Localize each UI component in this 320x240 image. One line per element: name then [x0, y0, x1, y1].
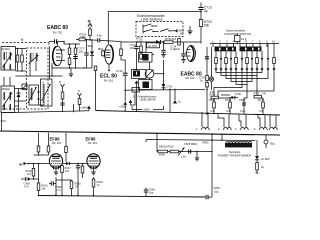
svg-text:1: 1	[212, 40, 214, 44]
svg-text:R501A R501: R501A R501	[159, 145, 174, 149]
svg-text:10n: 10n	[79, 50, 84, 54]
svg-text:4,7n: 4,7n	[24, 185, 30, 189]
svg-text:Rö 161: Rö 161	[104, 79, 113, 83]
label level meter	[138, 96, 157, 102]
svg-text:9: 9	[266, 40, 268, 44]
svg-text:R801: R801	[203, 141, 210, 145]
capacitor C719	[116, 60, 128, 102]
capacitor C721 feed line	[130, 41, 139, 71]
resistor R315	[56, 180, 81, 196]
wire ECL80 top to plate row	[108, 40, 141, 60]
tube EABC80 Roe702 envelope	[53, 46, 62, 65]
svg-text:927kHz: 927kHz	[2, 47, 11, 51]
labels R805 R801	[203, 141, 210, 145]
fuse 50u symbol right	[264, 135, 275, 148]
diode C703	[162, 84, 173, 90]
capacitor C713	[199, 3, 212, 20]
svg-text:1M: 1M	[172, 37, 177, 41]
svg-text:1: 1	[196, 127, 198, 131]
P Y column second	[78, 89, 82, 111]
tube2 electrodes	[186, 50, 191, 57]
label Endroehrenschalter	[137, 14, 166, 22]
label Netztrafo	[218, 150, 251, 158]
NF input plug	[19, 162, 49, 167]
resistor 1k under diode	[256, 160, 265, 173]
ground rail lower	[38, 194, 205, 197]
divider line	[0, 131, 280, 135]
svg-text:20n: 20n	[130, 46, 135, 50]
capacitor above tube1	[49, 39, 65, 46]
svg-text:0,1μ: 0,1μ	[240, 109, 246, 113]
svg-text:3Mp: 3Mp	[88, 44, 94, 48]
svg-text:Rö. 401: Rö. 401	[52, 141, 62, 145]
svg-text:4: 4	[235, 127, 237, 131]
svg-text:Rö 702: Rö 702	[53, 31, 62, 35]
svg-text:C708: C708	[235, 93, 241, 96]
svg-text:8: 8	[259, 40, 261, 44]
component column right of tube1	[64, 42, 80, 69]
routing wires below contacts	[214, 70, 274, 95]
svg-text:100k: 100k	[137, 40, 144, 44]
svg-text:47k: 47k	[262, 93, 267, 96]
svg-text:90V: 90V	[1, 119, 6, 123]
svg-text:8Mp: 8Mp	[98, 47, 104, 51]
svg-text:P: P	[59, 80, 61, 84]
svg-text:0,1M: 0,1M	[174, 47, 180, 51]
switch wafer bar left	[215, 47, 237, 52]
label EABC80 second	[181, 72, 202, 81]
svg-text:C505 R802: C505 R802	[184, 142, 198, 146]
svg-text:EF86: EF86	[86, 137, 97, 142]
meter box1 black	[139, 53, 155, 63]
svg-text:+180V: +180V	[80, 106, 88, 110]
svg-text:1M: 1M	[65, 169, 69, 173]
svg-text:1k: 1k	[261, 165, 265, 169]
middle dashed shield box	[2, 48, 48, 109]
ground right of switch box	[188, 26, 193, 34]
rectifier Gr704 row	[140, 40, 201, 48]
wires below left section	[15, 65, 63, 106]
IF1 coils	[3, 52, 13, 70]
resistor R516 between tubes	[81, 163, 84, 178]
heater symbol 6	[269, 115, 278, 130]
arrow +up triangle near meter	[173, 100, 181, 104]
label Steuerschalter	[224, 29, 251, 36]
capacitor C509 between tubes	[76, 163, 80, 196]
svg-text:P: P	[78, 89, 80, 93]
svg-text:1M: 1M	[180, 32, 184, 36]
capacitor C809 column	[239, 98, 246, 115]
lower routing to supply components	[214, 95, 263, 98]
resistor R416	[26, 163, 35, 180]
svg-text:4,5n: 4,5n	[97, 34, 103, 38]
resistor R705 on row	[162, 37, 178, 44]
drops from divider to EF86 stage	[34, 133, 50, 156]
resistor below M arrow	[89, 29, 92, 40]
wire bottom of tube1 columns	[52, 63, 92, 69]
svg-text:47k: 47k	[226, 109, 231, 113]
diode Gr705 column	[88, 39, 95, 68]
wires meter region	[125, 89, 205, 112]
svg-text:460kHz: 460kHz	[2, 87, 11, 91]
tuning meter circle	[145, 62, 163, 78]
resistor R712 row1	[254, 93, 267, 99]
box S with feed	[132, 88, 140, 102]
label +250V triangle	[119, 100, 135, 112]
svg-text:2: 2	[219, 40, 221, 44]
svg-text:6: 6	[254, 127, 256, 131]
resistor R703	[199, 20, 212, 44]
ECL80 electrodes	[103, 50, 111, 58]
variable IF coil assembly in dashed box	[28, 84, 44, 105]
cathode tube1 column	[55, 177, 57, 184]
resistor R716	[76, 33, 98, 41]
switch rail to wafer ticks	[216, 46, 257, 49]
svg-text:5n: 5n	[200, 80, 203, 83]
wire from C716 column down	[206, 89, 208, 115]
tube ECL80 envelope	[105, 45, 114, 64]
wire left edge of switch field	[211, 47, 213, 90]
heater symbol 1	[196, 112, 210, 131]
coupling diode between tubes	[63, 162, 87, 165]
svg-text:47k: 47k	[210, 109, 215, 113]
svg-text:10μ: 10μ	[214, 190, 219, 194]
switch wafer bar right	[240, 47, 262, 52]
capacitor C806	[206, 186, 220, 199]
ground stub below tube1 columns	[69, 68, 73, 77]
capacitor C309	[49, 181, 62, 192]
svg-text:7: 7	[252, 40, 254, 44]
capacitor 4,5n	[97, 34, 122, 43]
svg-text:240V: 240V	[144, 108, 151, 112]
svg-text:+250V: +250V	[119, 105, 127, 109]
svg-text:POWER TRANSFORMER: POWER TRANSFORMER	[218, 153, 251, 157]
svg-text:8μ: 8μ	[204, 9, 208, 13]
svg-text:10: 10	[272, 40, 275, 44]
wire into meter box1	[145, 41, 146, 52]
cathode tube2 column R515	[92, 177, 103, 196]
switch vertical drops with arrows	[216, 44, 274, 69]
black component right of ECL80	[132, 70, 147, 112]
IF2 coils	[3, 92, 13, 110]
diode arrows on drops	[220, 58, 270, 61]
svg-text:3: 3	[226, 40, 228, 44]
resistor R810 column	[209, 98, 216, 114]
tube1 electrodes	[56, 49, 65, 61]
resistor R517 between tubes	[61, 165, 72, 196]
svg-text:2: 2	[218, 127, 220, 131]
resistor R717 column	[258, 98, 265, 115]
svg-text:C806: C806	[214, 186, 221, 190]
wire: top B+ bus	[108, 12, 201, 45]
svg-text:1k: 1k	[178, 101, 181, 104]
junction on rail	[211, 134, 223, 141]
trimmer box	[22, 84, 27, 90]
label 90V	[1, 119, 6, 123]
IF transformer box 460kHz	[1, 86, 15, 113]
heater symbol 4	[235, 115, 249, 131]
svg-text:R708: R708	[225, 98, 232, 102]
ECL80 bottom stub	[108, 64, 110, 71]
power transformer core	[225, 143, 252, 148]
tube EABC80 second envelope	[187, 46, 196, 62]
contact numbers	[212, 40, 275, 44]
svg-text:C703: C703	[167, 86, 173, 89]
svg-text:R717: R717	[258, 98, 265, 102]
capacitor C714 to ground	[161, 41, 176, 57]
solid coil box lower	[41, 79, 53, 106]
label EF86 second	[86, 137, 98, 146]
diode in IF section	[17, 89, 21, 113]
meter right column	[163, 60, 165, 84]
line A 180V rail	[2, 104, 90, 131]
diode Gr802	[255, 141, 270, 162]
components column x207	[199, 47, 209, 90]
svg-text:6: 6	[246, 40, 248, 44]
resistor between IF boxes	[16, 48, 23, 72]
resistor 0,1M vertical	[174, 38, 180, 51]
label ECL80	[100, 74, 117, 83]
resistor boxes on switch drops	[215, 58, 276, 64]
switch S2	[143, 29, 159, 32]
svg-text:C719: C719	[116, 69, 123, 73]
svg-text:Rö 162: Rö 162	[186, 76, 195, 80]
IF transformer box 927kHz	[1, 47, 15, 71]
component 8Mp	[98, 47, 104, 56]
label +180V triangle	[80, 106, 91, 111]
svg-text:Limit Switches: Limit Switches	[141, 18, 163, 22]
svg-text:Gr 704: Gr 704	[148, 44, 157, 48]
svg-text:LEVEL METER: LEVEL METER	[140, 98, 157, 101]
svg-text:50k: 50k	[204, 24, 210, 28]
capacitor and ground below tube2	[181, 42, 185, 63]
svg-text:1M: 1M	[42, 187, 46, 191]
drop x66 screen feed	[65, 133, 68, 162]
meter box2 black	[139, 78, 153, 89]
heater symbol 2	[218, 114, 232, 131]
contact circles row	[215, 68, 275, 70]
diode C708 row1	[229, 93, 241, 99]
svg-text:50μ: 50μ	[270, 142, 275, 146]
transformer winding scallops	[226, 141, 252, 142]
svg-text:Rö. 501: Rö. 501	[88, 141, 98, 145]
heater symbol 5	[254, 115, 268, 131]
label EF86 first	[50, 137, 62, 146]
svg-text:1kp: 1kp	[149, 191, 154, 195]
label 800k	[179, 29, 185, 36]
middle box coils top	[29, 53, 39, 76]
tube2 ground	[91, 170, 95, 175]
capacitor C409	[21, 177, 39, 189]
node: junction top bus right	[200, 11, 202, 13]
switch S1	[143, 24, 158, 34]
dashed AGC line V	[2, 38, 49, 47]
control switch actuator box	[235, 33, 247, 44]
R501A R501 row	[157, 133, 213, 161]
resistor R708 column	[221, 95, 232, 114]
wires between IF box1 and box2	[4, 77, 10, 86]
svg-text:NF: NF	[19, 163, 23, 167]
resistor R707 row1	[210, 91, 219, 99]
long vertical right of dashed box	[49, 47, 51, 79]
svg-text:Gr 802: Gr 802	[261, 157, 270, 161]
svg-text:EF86: EF86	[50, 137, 61, 142]
capacitor C906 on ground rail	[144, 188, 155, 197]
svg-text:V: V	[21, 38, 24, 42]
lower rail right R501	[146, 140, 257, 143]
resistor R415	[37, 163, 48, 196]
tube EF86 second	[87, 154, 100, 170]
wires between IF boxes	[15, 49, 27, 102]
svg-text:1M: 1M	[27, 172, 31, 176]
vertical component column x141	[136, 37, 144, 61]
tube EF86 first	[49, 154, 62, 170]
svg-text:2,5n: 2,5n	[181, 155, 187, 159]
switch S3	[160, 29, 178, 33]
pilot lamp left	[209, 77, 213, 81]
+250V bus	[94, 66, 280, 115]
control switch contact rail	[210, 44, 279, 48]
svg-text:C809: C809	[239, 98, 246, 102]
svg-text:R810: R810	[209, 98, 216, 102]
vertical feed line x212	[211, 133, 213, 197]
label 240V with bracket	[132, 106, 164, 112]
switch box (dashed) Endroehrenschalter	[136, 22, 183, 37]
label EABC80 first tube	[47, 25, 68, 35]
tube1 ground	[54, 170, 58, 175]
tuning meter arrow M	[88, 20, 93, 30]
P Y input column	[59, 80, 65, 112]
capacitor C717 10n	[78, 39, 89, 68]
svg-text:47k: 47k	[259, 109, 264, 113]
